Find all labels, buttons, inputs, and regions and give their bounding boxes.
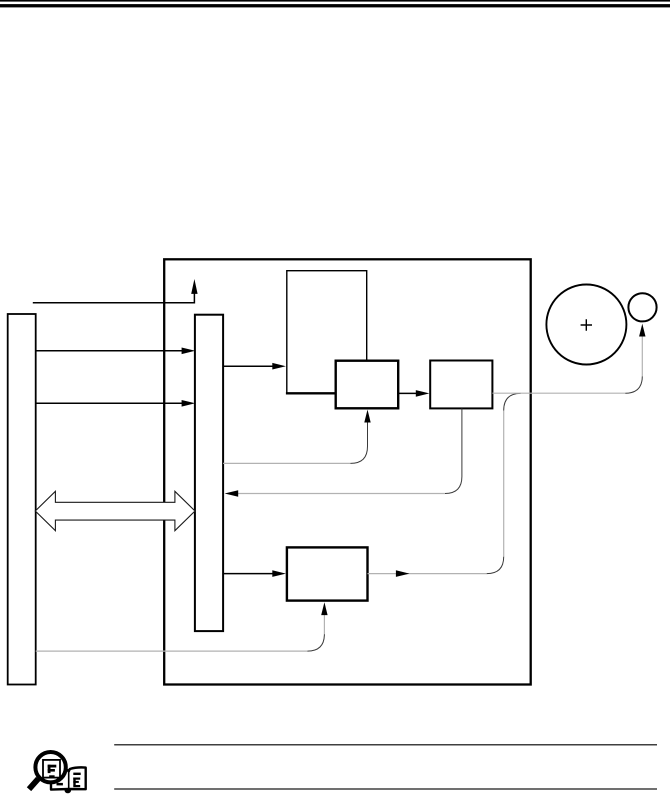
wire: box1 to box2: [398, 392, 417, 394]
logo: left page text mark: [57, 783, 63, 786]
logo: magnifier ring: [35, 752, 65, 782]
wire: bottom box output rising to top line (curved): [368, 393, 521, 573]
arrowhead up into box1 bottom: [364, 410, 370, 423]
left bus bar: [8, 314, 36, 685]
wire: latch bar to tall box: [223, 365, 274, 367]
plus mark in big circle: [581, 319, 592, 330]
logo: document page inside lens: [43, 760, 60, 778]
outer block boundary box: [164, 259, 531, 684]
top thick rule: [0, 4, 670, 7]
box2 (right processing block): [430, 361, 492, 409]
arrowhead right into bottom box: [272, 570, 286, 577]
big circle (drum): [546, 285, 626, 365]
footer rule bottom: [114, 788, 657, 789]
top thin rule: [0, 0, 670, 2]
wire: box2 output to small circle (curved): [492, 336, 642, 393]
arrowhead up into bottom box underside: [321, 602, 327, 615]
bottom box (driver block): [287, 547, 368, 600]
bidirectional bus block arrow: [35, 491, 195, 530]
wire: left bar to bottom box underside (long curved): [36, 615, 325, 651]
tall box (top register block): [287, 271, 367, 394]
arrowhead left into latch bar: [225, 490, 239, 497]
tall box thick bottom edge: [286, 392, 368, 394]
wire: upper signal line with up arrow: [33, 294, 195, 303]
arrowhead right into tall box: [272, 363, 286, 370]
footer rule top: [114, 744, 657, 745]
wire: bus line 1 into latch bar: [36, 350, 183, 352]
box1 (middle processing block): [336, 361, 399, 409]
arrowhead up into small circle: [639, 324, 645, 337]
arrowhead right into latch bar (line 2): [182, 400, 196, 407]
wire: bus line 2 into latch bar: [36, 402, 183, 404]
logo: magnifier handle: [29, 779, 38, 789]
arrowhead right into latch bar (line 1): [182, 348, 196, 355]
arrowhead up at top-left: [191, 279, 197, 294]
logo: right page text marks: [73, 773, 80, 788]
arrowhead right on bottom box output: [396, 570, 410, 577]
wire: box2 bottom feedback into latch bar (curved): [237, 408, 462, 493]
wire: latch bar to bottom box: [223, 573, 274, 575]
wire: latch bar to box1 bottom (curved): [223, 422, 367, 463]
small circle (roller): [628, 293, 656, 321]
logo: lens interior mask: [37, 754, 64, 781]
arrowhead right into box2: [416, 390, 430, 397]
inner latch bar: [195, 315, 223, 631]
logo: open book: [51, 767, 86, 793]
